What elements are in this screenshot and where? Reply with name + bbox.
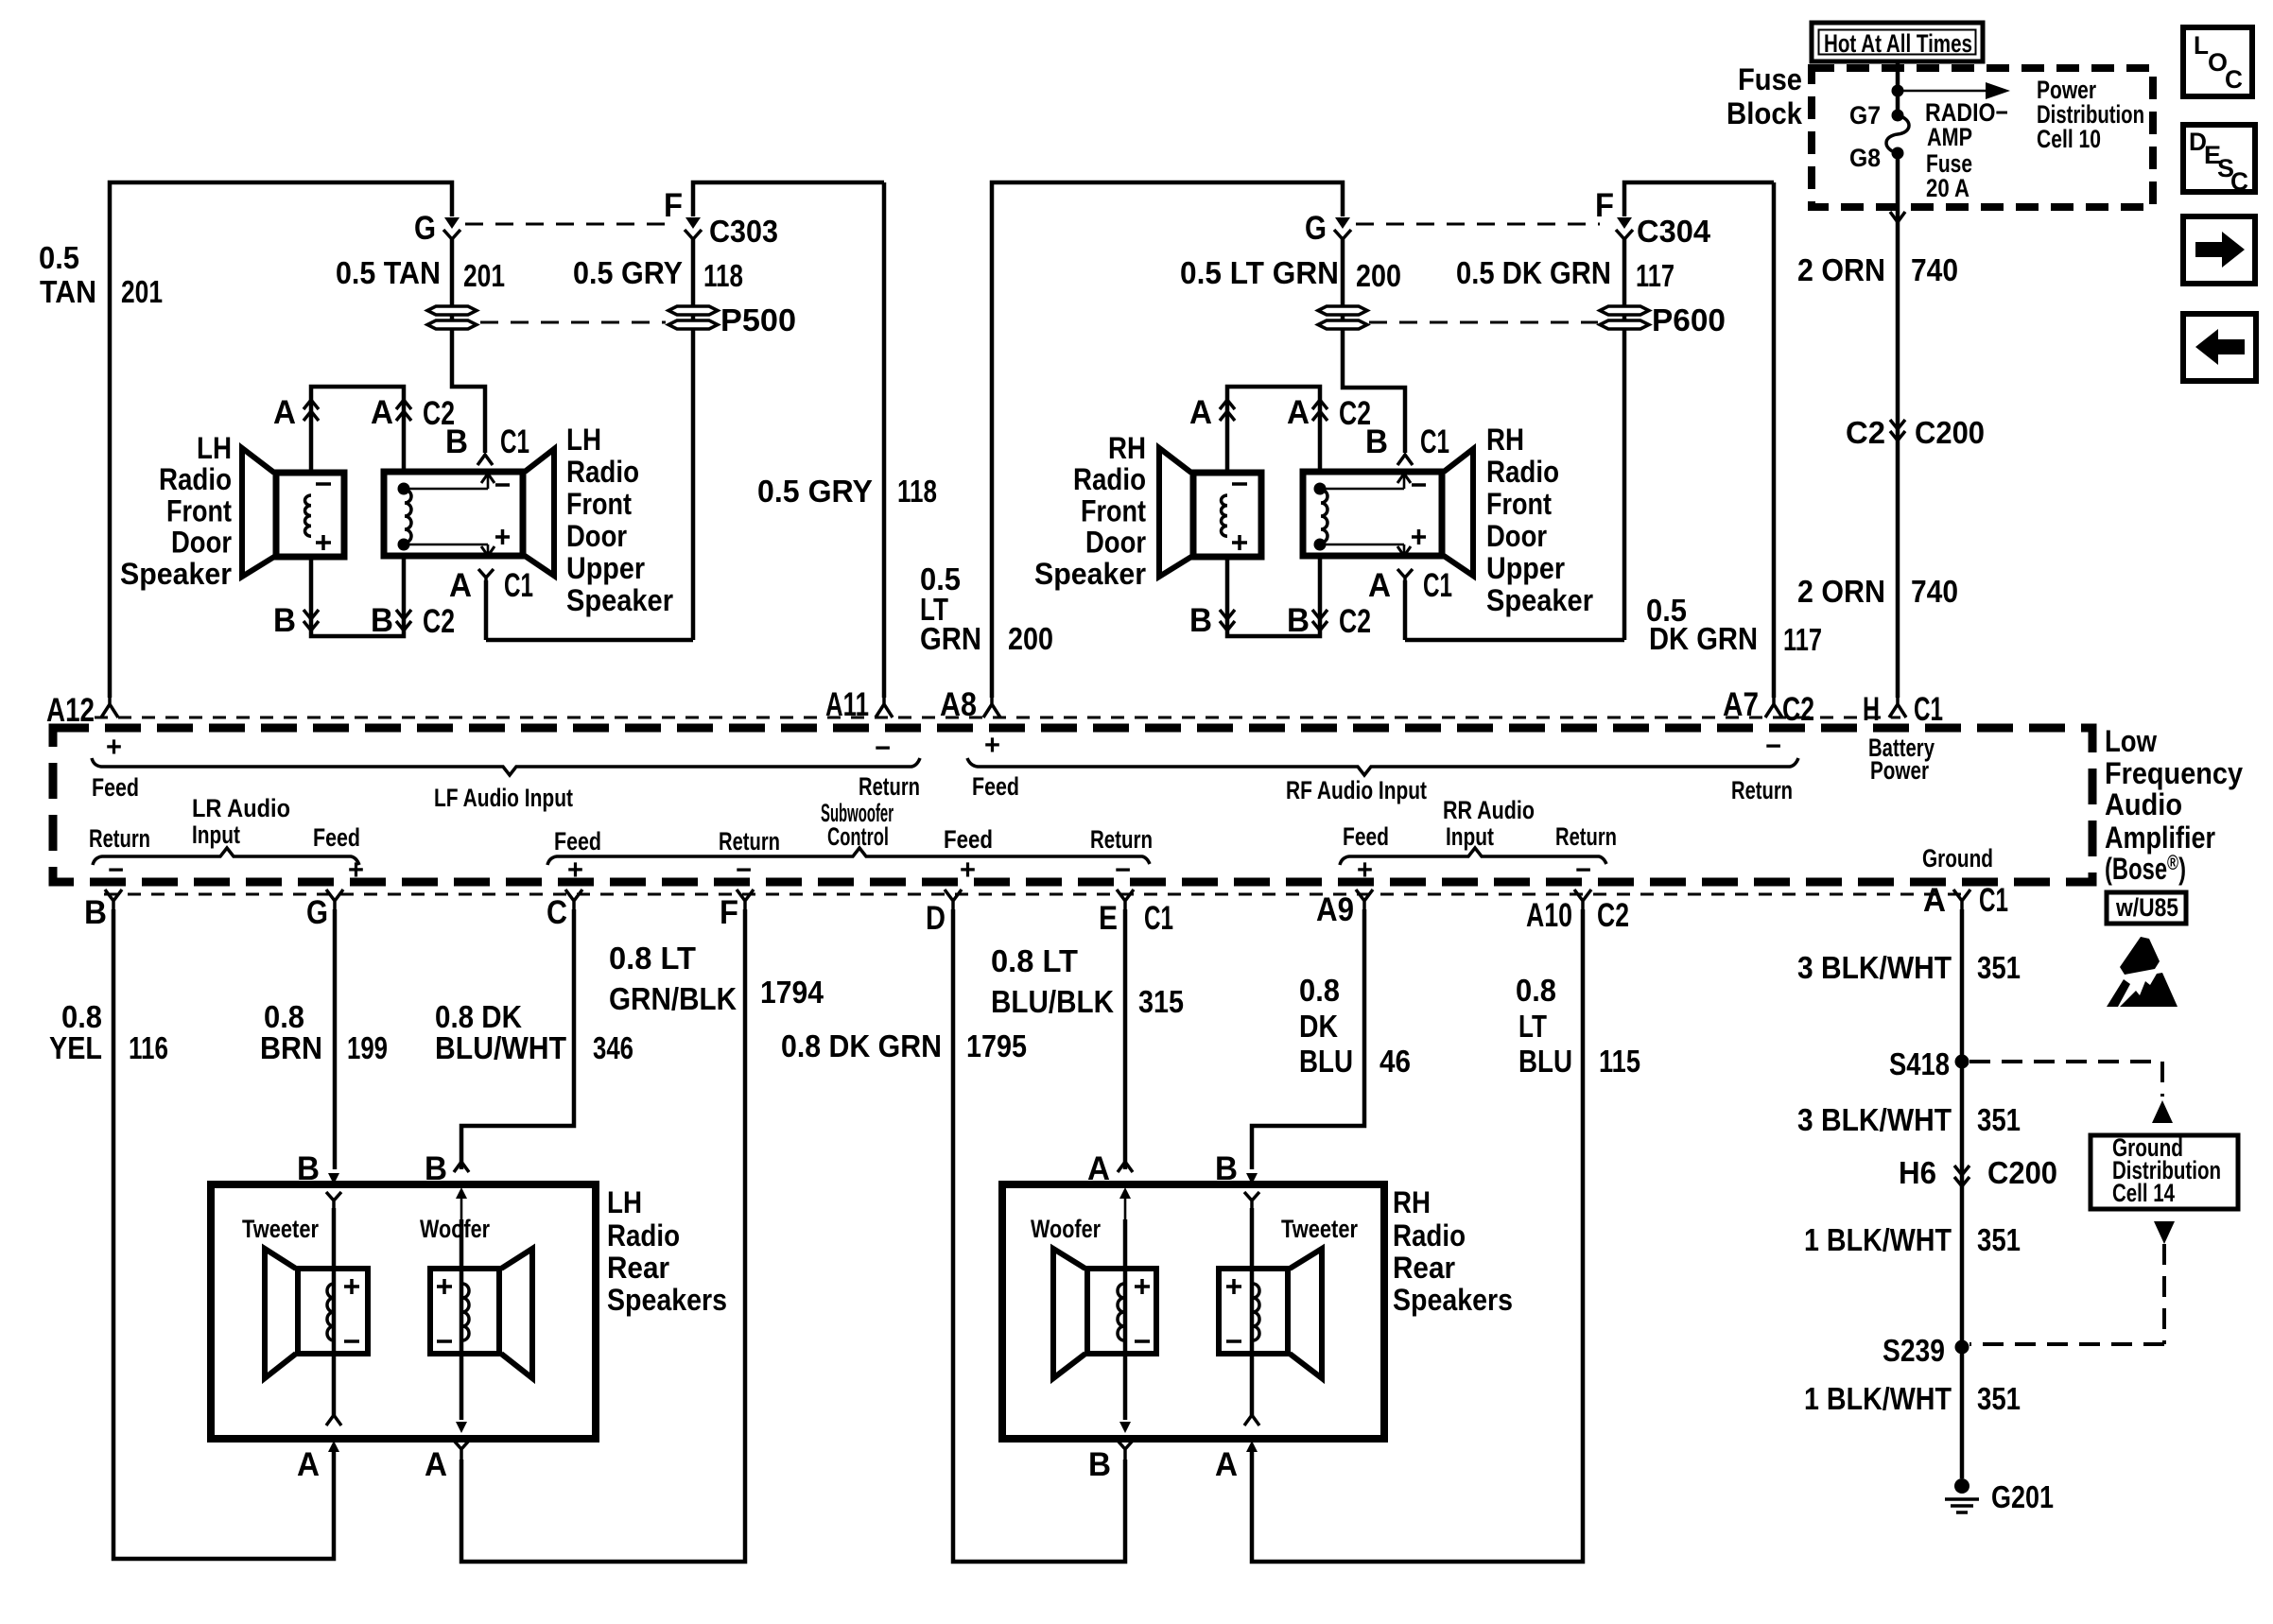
tweeter coil: [327, 1284, 334, 1340]
svg-text:C304: C304: [1637, 214, 1711, 249]
svg-text:Feed: Feed: [313, 823, 360, 852]
wire A10 0.8 LT BLU 115: [1252, 909, 1583, 1562]
svg-text:Radio: Radio: [607, 1218, 680, 1253]
svg-text:Power: Power: [1870, 756, 1929, 785]
junction dot top: [398, 483, 410, 495]
pin B arrow into RH tweeter: [1246, 1173, 1258, 1184]
dashed line P500: [480, 321, 666, 324]
svg-text:B: B: [273, 602, 296, 639]
svg-text:P600: P600: [1652, 302, 1726, 337]
tweeter wire: [332, 1208, 337, 1415]
labels A A C2: [1189, 394, 1371, 432]
svg-text:B: B: [1088, 1446, 1111, 1483]
svg-text:w/U85: w/U85: [2115, 893, 2178, 922]
svg-text:Audio: Audio: [2105, 787, 2182, 821]
label 3 BLK/WHT 351 second: [1797, 1102, 2021, 1137]
svg-text:F: F: [664, 187, 683, 224]
svg-text:3 BLK/WHT: 3 BLK/WHT: [1797, 950, 1952, 985]
svg-text:RF Audio Input: RF Audio Input: [1286, 776, 1427, 804]
label 0.8 DK BLU 46: [1299, 973, 1411, 1079]
label 0.5 DK GRN 117 lower: [1646, 593, 1822, 657]
ESD sensitive device symbol: [2107, 937, 2178, 1007]
svg-text:G201: G201: [1991, 1479, 2054, 1514]
pin B arrow right C2: [1312, 610, 1327, 631]
Ground Distribution Cell 14 box: [2091, 1133, 2238, 1209]
svg-text:A: A: [1368, 567, 1391, 604]
svg-text:BLU/WHT: BLU/WHT: [435, 1030, 566, 1065]
brace rear LF and subwoofer control: [547, 848, 1150, 865]
svg-text:F: F: [1595, 187, 1614, 224]
labels C2 C200: [1846, 415, 1985, 450]
wire F 0.5 GRY 118: [486, 182, 884, 640]
label 1 BLK/WHT 351 first: [1804, 1222, 2021, 1257]
upper speaker coil: [1321, 490, 1327, 543]
svg-text:BLU/BLK: BLU/BLK: [991, 984, 1114, 1019]
svg-text:1794: 1794: [760, 975, 824, 1010]
labels H6 C200: [1899, 1155, 2057, 1190]
label RH radio rear speakers: [1393, 1185, 1513, 1317]
svg-text:+: +: [984, 730, 1000, 761]
svg-text:GRN: GRN: [920, 621, 981, 656]
pin A12 fork: [101, 698, 118, 717]
speaker LH rear tweeter horn: [265, 1249, 296, 1378]
labels LF feed side: [92, 732, 139, 802]
speaker LH radio front door upper horn: [525, 449, 554, 576]
svg-text:A: A: [1215, 1446, 1238, 1483]
svg-text:B: B: [1287, 602, 1310, 639]
wire B 0.8 YEL 116: [113, 909, 334, 1559]
Hot At All Times box: [1812, 23, 1983, 61]
svg-text:Speakers: Speakers: [1393, 1283, 1513, 1317]
terminal F of C303: [685, 217, 702, 239]
svg-text:199: 199: [347, 1030, 388, 1065]
pin A C1 exit fork: [478, 569, 494, 580]
brace LR Audio Input: [93, 848, 359, 865]
labels RR feed side: [1343, 822, 1389, 886]
svg-text:1 BLK/WHT: 1 BLK/WHT: [1804, 1381, 1952, 1416]
label LH radio front door speaker: [120, 431, 232, 591]
label 0.5 TAN 201 at G: [336, 255, 505, 293]
wire A12 0.5 TAN 201 LH feed: [110, 182, 452, 698]
wire D 0.8 DK GRN 1795: [953, 909, 1125, 1562]
label 0.5 TAN 201 left: [39, 240, 163, 309]
plus mark: [316, 535, 331, 550]
pin B arrow left: [304, 610, 319, 631]
dashed connector line C303 G-F: [465, 223, 668, 226]
svg-text:Block: Block: [1726, 96, 1802, 130]
junction dot bottom: [398, 539, 410, 551]
labels A C1: [449, 567, 533, 604]
labels RF feed side: [972, 730, 1019, 801]
svg-text:D: D: [926, 900, 946, 937]
svg-text:200: 200: [1356, 258, 1401, 293]
svg-text:Upper: Upper: [1486, 551, 1565, 585]
svg-text:Return: Return: [89, 824, 150, 853]
svg-text:G7: G7: [1849, 101, 1881, 130]
pin A10 fork: [1574, 890, 1591, 909]
tap wire plus: [404, 529, 510, 556]
label 0.8 LT GRN/BLK 1794: [609, 941, 824, 1016]
svg-text:LT: LT: [1518, 1009, 1547, 1044]
wire C 0.8 DK BLU/WHT 346: [461, 909, 574, 1169]
speaker RH rear woofer horn: [1053, 1249, 1085, 1378]
svg-text:C1: C1: [1423, 567, 1452, 604]
labels A C1: [1923, 882, 2008, 919]
svg-text:S239: S239: [1883, 1333, 1945, 1368]
RH woofer top arrow inside: [1119, 1187, 1131, 1219]
wire 0.5 LT GRN 200 below G: [1343, 239, 1405, 453]
labels LR return side: [89, 824, 150, 886]
label 0.5 GRY 118 lower: [757, 474, 937, 509]
svg-text:2 ORN: 2 ORN: [1797, 574, 1885, 609]
terminal G of C304: [1334, 217, 1351, 239]
speaker RH radio front door horn: [1159, 448, 1191, 577]
dashed link S418 to ground distribution: [1969, 1062, 2173, 1123]
svg-text:2 ORN: 2 ORN: [1797, 252, 1885, 287]
wire F 0.5 DK GRN 117: [1405, 182, 1774, 640]
svg-text:Door: Door: [1085, 526, 1146, 560]
svg-text:DK GRN: DK GRN: [1649, 621, 1758, 656]
label 2 ORN 740 upper: [1797, 252, 1958, 287]
minus mark: [1135, 1339, 1150, 1343]
svg-text:A: A: [449, 567, 472, 604]
dashed link ground distribution to S239: [1969, 1221, 2175, 1344]
node B bridge RH speaker pins B/C2: [1227, 557, 1320, 636]
svg-text:Low: Low: [2105, 724, 2157, 758]
labels G7 G8: [1849, 101, 1881, 172]
RH woofer wire: [1123, 1219, 1128, 1420]
speaker RH rear tweeter horn: [1290, 1249, 1322, 1378]
svg-text:740: 740: [1911, 574, 1958, 609]
brace LF Audio Input: [92, 758, 920, 775]
labels E C1: [1099, 900, 1173, 937]
dashed line P600: [1369, 321, 1598, 324]
pin A11 fork: [876, 698, 893, 717]
pin A C1 exit fork: [1397, 569, 1413, 580]
svg-text:Door: Door: [1486, 519, 1547, 553]
svg-text:0.8: 0.8: [264, 999, 304, 1034]
svg-text:20 A: 20 A: [1926, 174, 1969, 202]
svg-text:117: 117: [1636, 258, 1674, 293]
svg-text:A: A: [371, 394, 393, 431]
node B bridge LH speaker pins B/C2: [311, 557, 404, 636]
speaker RH radio front door upper horn: [1444, 449, 1473, 576]
wire ground 3 BLK/WHT 351: [1960, 909, 1965, 1478]
speaker RH radio front door box: [1193, 473, 1261, 557]
junction node G7 branch: [1892, 85, 1904, 97]
label 2 ORN 740 lower: [1797, 574, 1958, 609]
speaker LH rear tweeter box: [298, 1269, 368, 1354]
pin G fork: [326, 890, 343, 909]
pin A7 fork: [1765, 698, 1782, 717]
pin A chevron RH woofer top: [1118, 1162, 1133, 1172]
svg-text:Input: Input: [192, 821, 240, 849]
pin A arrow left: [1220, 400, 1235, 421]
label RR Audio Input: [1443, 796, 1535, 851]
labels H C1: [1863, 691, 1943, 728]
woofer wire: [460, 1219, 464, 1420]
svg-text:−: −: [736, 855, 752, 886]
RH woofer exit fork pin B: [1118, 1441, 1133, 1460]
svg-text:Radio: Radio: [1393, 1218, 1466, 1253]
labels B C1: [1365, 423, 1449, 460]
svg-text:A7: A7: [1723, 686, 1759, 723]
svg-text:LF Audio Input: LF Audio Input: [434, 784, 573, 812]
labels RF return side: [1731, 731, 1793, 804]
pin A arrow right C2: [1312, 400, 1327, 421]
speaker RH radio front door upper box: [1303, 472, 1442, 556]
svg-text:0.8: 0.8: [61, 999, 102, 1034]
svg-text:0.5 GRY: 0.5 GRY: [573, 255, 683, 290]
svg-text:C: C: [2230, 167, 2248, 196]
labels A A C2: [273, 394, 455, 432]
label 3 BLK/WHT 351 first: [1797, 950, 2021, 985]
wire G 0.8 BRN 199: [333, 909, 338, 1169]
label 1 BLK/WHT 351 second: [1804, 1381, 2021, 1416]
svg-text:B: B: [84, 894, 107, 931]
Low Frequency Audio Amplifier dashed box: [53, 728, 2092, 882]
svg-text:A: A: [273, 394, 296, 431]
svg-text:Door: Door: [566, 519, 627, 553]
svg-text:C1: C1: [1144, 900, 1173, 937]
plus mark: [1232, 535, 1247, 550]
svg-text:E: E: [1099, 900, 1118, 937]
svg-text:A: A: [425, 1446, 447, 1483]
svg-text:740: 740: [1911, 252, 1958, 287]
label LR Audio Input: [192, 794, 290, 849]
svg-text:118: 118: [897, 474, 937, 509]
plus mark: [1226, 1279, 1241, 1294]
label 0.8 DK GRN 1795: [781, 1028, 1027, 1063]
wire from Hot box to fuse: [1896, 61, 1900, 113]
svg-text:A: A: [1087, 1150, 1110, 1187]
svg-text:A: A: [1189, 394, 1212, 431]
svg-text:Speaker: Speaker: [566, 583, 673, 617]
speaker LH radio front door box: [276, 473, 344, 557]
tap wire plus: [1320, 529, 1426, 556]
minus mark: [344, 1339, 359, 1343]
svg-text:LH: LH: [566, 423, 601, 457]
pin A arrow out of LH tweeter: [328, 1441, 339, 1452]
svg-text:B: B: [1189, 602, 1212, 639]
svg-text:1 BLK/WHT: 1 BLK/WHT: [1804, 1222, 1952, 1257]
svg-text:351: 351: [1977, 1222, 2021, 1257]
svg-text:Return: Return: [719, 827, 780, 855]
svg-text:C2: C2: [423, 603, 455, 640]
RH woofer coil: [1118, 1284, 1124, 1340]
tap wire minus: [1320, 474, 1426, 489]
label LH radio front door upper speaker: [566, 423, 673, 617]
LOC legend box: [2183, 27, 2252, 96]
wire 2 ORN 740 from fuse to amp: [1896, 153, 1900, 698]
label 0.8 BRN 199: [260, 999, 388, 1065]
labels rear LF feed: [554, 827, 601, 886]
svg-text:A9: A9: [1316, 891, 1354, 928]
grommet P500 left half: [427, 306, 477, 329]
brace RF Audio Input: [967, 758, 1798, 775]
plus mark: [344, 1279, 359, 1294]
svg-text:0.8 LT: 0.8 LT: [609, 941, 696, 976]
svg-text:Fuse: Fuse: [1738, 62, 1802, 96]
svg-text:Speaker: Speaker: [120, 557, 232, 591]
label Fuse Block: [1726, 62, 1802, 130]
tweeter entry fork: [326, 1192, 341, 1208]
svg-text:DK: DK: [1299, 1009, 1338, 1044]
splice S239: [1955, 1340, 1969, 1355]
junction dot bottom: [1314, 539, 1327, 551]
svg-text:TAN: TAN: [40, 274, 96, 309]
svg-text:RH: RH: [1393, 1185, 1431, 1219]
labels B C1: [445, 423, 529, 460]
label Low Frequency Audio Amplifier Bose: [2105, 724, 2243, 886]
svg-text:H6: H6: [1899, 1155, 1936, 1190]
svg-text:C2: C2: [1597, 897, 1629, 934]
junction dot top: [1314, 483, 1327, 495]
labels A C1: [1368, 567, 1452, 604]
svg-text:Input: Input: [1446, 822, 1494, 851]
svg-text:0.5 TAN: 0.5 TAN: [336, 255, 441, 290]
connector C2 C200 pass-through: [1890, 420, 1905, 441]
woofer top arrow inside: [456, 1187, 467, 1219]
pin B C1 entry chevron: [1397, 455, 1413, 465]
terminal G of C303: [443, 217, 460, 239]
pin E fork: [1117, 890, 1134, 909]
woofer bottom arrow inside: [456, 1399, 467, 1433]
svg-text:Upper: Upper: [566, 551, 645, 585]
svg-text:A: A: [297, 1446, 320, 1483]
label 0.8 LT BLU/BLK 315: [991, 943, 1184, 1019]
left arrow legend box: [2183, 314, 2256, 381]
svg-text:Woofer: Woofer: [1031, 1215, 1101, 1243]
speaker LH radio front door coil: [305, 495, 312, 536]
svg-text:F: F: [720, 894, 738, 931]
speaker RH radio front door coil: [1222, 495, 1227, 536]
pin F fork: [737, 890, 754, 909]
node A bridge LH speaker pins A/C2: [311, 387, 404, 473]
labels rear RF return: [1090, 825, 1153, 886]
branch arrow to Power Distribution: [1898, 82, 2010, 99]
labels B B C2: [273, 602, 455, 640]
labels rear LF return: [719, 827, 780, 886]
pin B C1 entry chevron: [477, 455, 493, 465]
speaker LH radio front door horn: [242, 448, 274, 577]
svg-text:117: 117: [1783, 622, 1822, 657]
labels A7 C2: [1723, 686, 1814, 728]
minus mark: [1232, 482, 1247, 486]
labels LF return side: [859, 733, 920, 801]
svg-text:A: A: [1287, 394, 1310, 431]
svg-text:B: B: [371, 602, 393, 639]
pin C fork: [565, 890, 582, 909]
svg-text:L: L: [2194, 31, 2209, 60]
svg-text:Front: Front: [166, 493, 232, 527]
svg-text:G: G: [414, 210, 436, 247]
svg-text:B: B: [297, 1150, 320, 1187]
svg-text:S418: S418: [1889, 1046, 1950, 1081]
tap wire minus: [404, 474, 510, 489]
svg-text:115: 115: [1599, 1044, 1640, 1079]
svg-text:B: B: [425, 1150, 447, 1187]
svg-text:Control: Control: [827, 822, 889, 851]
svg-text:Feed: Feed: [554, 827, 601, 855]
svg-text:Front: Front: [1486, 487, 1552, 521]
label 0.8 YEL 116: [49, 999, 168, 1065]
svg-text:YEL: YEL: [49, 1030, 102, 1065]
pin A arrow right C2: [396, 400, 411, 421]
svg-text:0.5 LT GRN: 0.5 LT GRN: [1180, 255, 1339, 290]
svg-text:0.8 DK: 0.8 DK: [435, 999, 522, 1034]
svg-text:C1: C1: [500, 423, 529, 460]
svg-text:351: 351: [1977, 950, 2021, 985]
pin B arrow into LH tweeter: [328, 1173, 339, 1184]
svg-text:Return: Return: [1555, 822, 1617, 851]
thin dashed connector line top: [95, 717, 1900, 719]
splice S418: [1955, 1055, 1969, 1069]
dashed connector line C304 G-F: [1356, 223, 1600, 226]
labels A10 C2: [1526, 897, 1629, 934]
svg-text:0.8 LT: 0.8 LT: [991, 943, 1078, 978]
pin B arrow right C2: [396, 610, 411, 631]
svg-text:Feed: Feed: [92, 773, 139, 802]
svg-text:C2: C2: [1782, 691, 1814, 728]
connector H6 C200: [1954, 1166, 1969, 1186]
pin B fork: [105, 890, 122, 909]
fuse element: [1886, 115, 1909, 153]
woofer exit fork pin A: [454, 1441, 469, 1460]
labels LR feed side: [313, 823, 364, 886]
pin D fork: [945, 890, 962, 909]
svg-text:Woofer: Woofer: [420, 1215, 490, 1243]
label 0.5 LT GRN 200 stacked: [920, 561, 1053, 656]
svg-text:Frequency: Frequency: [2105, 756, 2243, 790]
svg-text:B: B: [1215, 1150, 1238, 1187]
svg-text:BLU: BLU: [1299, 1044, 1353, 1079]
tweeter bottom chevron: [326, 1415, 341, 1425]
svg-text:Cell 10: Cell 10: [2037, 125, 2101, 153]
svg-text:−: −: [108, 855, 124, 886]
svg-text:RR Audio: RR Audio: [1443, 796, 1535, 824]
plus mark: [437, 1279, 452, 1294]
grommet P600 right half: [1600, 306, 1649, 329]
svg-text:+: +: [348, 855, 364, 886]
svg-text:200: 200: [1008, 621, 1053, 656]
svg-text:Radio: Radio: [1073, 462, 1146, 496]
svg-text:B: B: [445, 423, 468, 460]
svg-text:A10: A10: [1526, 897, 1572, 934]
svg-text:Hot At All Times: Hot At All Times: [1824, 29, 1972, 58]
label RH radio front door upper speaker: [1486, 423, 1593, 617]
RH tweeter coil: [1253, 1284, 1259, 1340]
svg-text:LH: LH: [197, 431, 232, 465]
pin B arrow left: [1220, 610, 1235, 631]
svg-text:Radio: Radio: [159, 462, 232, 496]
brace RR Audio Input: [1340, 848, 1606, 865]
speaker RH rear woofer box: [1087, 1269, 1156, 1354]
RH tweeter entry fork: [1244, 1192, 1259, 1208]
wire 0.5 TAN 201 below G: [452, 239, 485, 453]
svg-text:A8: A8: [940, 686, 977, 723]
svg-text:Speaker: Speaker: [1034, 557, 1146, 591]
pin B chevron LH woofer top: [454, 1162, 469, 1172]
svg-text:Tweeter: Tweeter: [1281, 1215, 1358, 1243]
svg-text:G: G: [306, 894, 328, 931]
svg-text:Return: Return: [1090, 825, 1153, 854]
svg-text:Speaker: Speaker: [1486, 583, 1593, 617]
label 0.5 DK GRN 117 upper: [1456, 255, 1674, 293]
svg-text:0.5 GRY: 0.5 GRY: [757, 474, 873, 509]
DESC legend box: [2183, 125, 2255, 196]
svg-text:AMP: AMP: [1927, 123, 1972, 151]
